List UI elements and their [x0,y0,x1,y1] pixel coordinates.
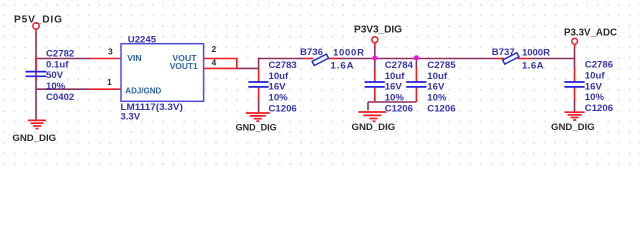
capacitor C2782 pin bottom [35,77,37,81]
wire C2785 drop [415,59,417,69]
svg-text:10%: 10% [385,93,405,104]
capacitor C2786 pin top [574,68,576,81]
svg-text:16V: 16V [585,81,603,92]
svg-text:C1206: C1206 [585,103,613,114]
svg-text:B737: B737 [492,47,515,58]
capacitor C2782 pin top [35,57,37,71]
wire C2786 drop [574,58,576,69]
svg-text:C1206: C1206 [385,104,413,115]
ground symbol left GND_DIG [28,120,46,128]
ferrite bead B736 body [312,54,328,65]
svg-text:0.1uf: 0.1uf [46,59,69,70]
capacitor C2784 plates [365,82,385,87]
svg-text:B736: B736 [300,47,323,58]
svg-text:C1206: C1206 [427,104,455,115]
capacitor C2785 plates [406,82,426,87]
svg-text:P3.3V_ADC: P3.3V_ADC [564,27,618,38]
svg-text:ADJ/GND: ADJ/GND [125,85,161,95]
regulator U2245 box [121,44,204,102]
svg-text:4: 4 [212,57,217,67]
svg-text:10%: 10% [46,81,66,92]
wire VOUT tie to node [237,67,259,69]
capacitor C2786 plates [564,82,584,87]
capacitor C2783 pin bottom [258,88,260,100]
svg-text:C2785: C2785 [427,60,456,71]
svg-text:GND_DIG: GND_DIG [551,122,595,133]
ferrite bead B736 right pin [327,58,339,60]
wire P5V to VIN [36,58,89,60]
svg-text:10uf: 10uf [269,71,290,82]
svg-text:C2782: C2782 [46,48,74,59]
svg-text:GND_DIG: GND_DIG [352,122,396,133]
capacitor C2784 pin bottom [374,88,376,102]
svg-text:16V: 16V [427,82,445,93]
capacitor C2786 pin bottom [574,88,576,100]
svg-text:GND_DIG: GND_DIG [236,122,277,133]
ground symbol under C2783 [246,113,270,121]
svg-text:VOUT1: VOUT1 [170,61,198,71]
pin 3 VIN [89,58,121,60]
wire GND rail to ADJ/GND [36,88,89,90]
svg-text:C2783: C2783 [269,60,297,71]
power port P3.3V_ADC circle [572,38,578,44]
svg-text:C2784: C2784 [385,60,414,71]
ground symbol under C2784 C2785 [358,112,386,121]
wire bus 3V3 segment 2 [339,58,495,60]
ferrite bead B737 left pin [495,58,505,60]
svg-text:U2245: U2245 [128,34,157,45]
svg-text:10%: 10% [427,93,447,104]
junction node at P3V3/C2784 [372,56,377,61]
svg-text:C1206: C1206 [269,104,297,115]
wire bus 3V3 segment 1 [258,58,304,60]
svg-text:3: 3 [108,47,113,57]
wire ground drop under C2784 [367,102,369,110]
P5V_DIG power stub [35,29,37,34]
pin 1 ADJ/GND [89,88,121,90]
svg-text:1.6A: 1.6A [522,60,544,71]
svg-text:C0402: C0402 [46,92,74,103]
ferrite bead B737 body [503,53,519,64]
svg-text:P5V_DIG: P5V_DIG [14,14,62,25]
capacitor C2785 pin top [415,68,417,81]
power port P5V_DIG circle [33,23,39,29]
wire node vertical at C2783 [258,58,260,69]
svg-text:16V: 16V [385,82,403,93]
wire C2786 to ground [574,99,576,112]
svg-text:P3V3_DIG: P3V3_DIG [354,24,402,35]
wire pin2-pin4 tie [236,58,238,69]
power port P3V3_DIG circle [372,37,378,43]
wire P3.3V stub lower [574,48,576,59]
wire P5V rail vertical [35,34,37,120]
wire bus ADC segment [529,58,575,60]
wire C2783 to ground [258,99,260,112]
ground symbol under C2786 [565,112,585,120]
svg-text:10uf: 10uf [427,71,448,82]
wire C2784 drop [374,59,376,69]
svg-text:1000R: 1000R [522,47,550,58]
svg-text:C2786: C2786 [585,60,613,71]
ferrite bead B736 left pin [304,58,314,60]
capacitor C2782 plates [26,72,47,77]
svg-text:10%: 10% [269,93,289,104]
capacitor C2783 pin top [258,68,260,81]
svg-text:10%: 10% [585,92,605,103]
pin 4 VOUT1 [204,67,237,69]
junction node at C2785 [414,55,419,60]
svg-text:10uf: 10uf [585,70,606,81]
grid background [0,0,640,165]
svg-text:VIN: VIN [127,53,141,63]
wire bottom bus C2784 C2785 [368,101,416,103]
svg-text:1: 1 [107,77,112,87]
wire P3V3 stub lower [374,47,376,59]
ferrite bead B737 right pin [518,58,530,60]
capacitor C2783 plates [248,82,268,87]
svg-text:1.6A: 1.6A [331,60,354,71]
P3.3V_ADC power stub [574,44,576,48]
svg-text:50V: 50V [46,70,64,81]
capacitor C2784 pin top [374,68,376,81]
svg-text:16V: 16V [269,82,287,93]
svg-text:1000R: 1000R [333,47,364,58]
pin 2 VOUT [204,58,237,60]
svg-text:GND_DIG: GND_DIG [12,133,56,144]
svg-text:2: 2 [212,44,217,54]
P3V3_DIG power stub [374,43,376,47]
capacitor C2785 pin bottom [415,88,417,102]
svg-text:3.3V: 3.3V [120,111,140,122]
svg-text:10uf: 10uf [385,71,406,82]
